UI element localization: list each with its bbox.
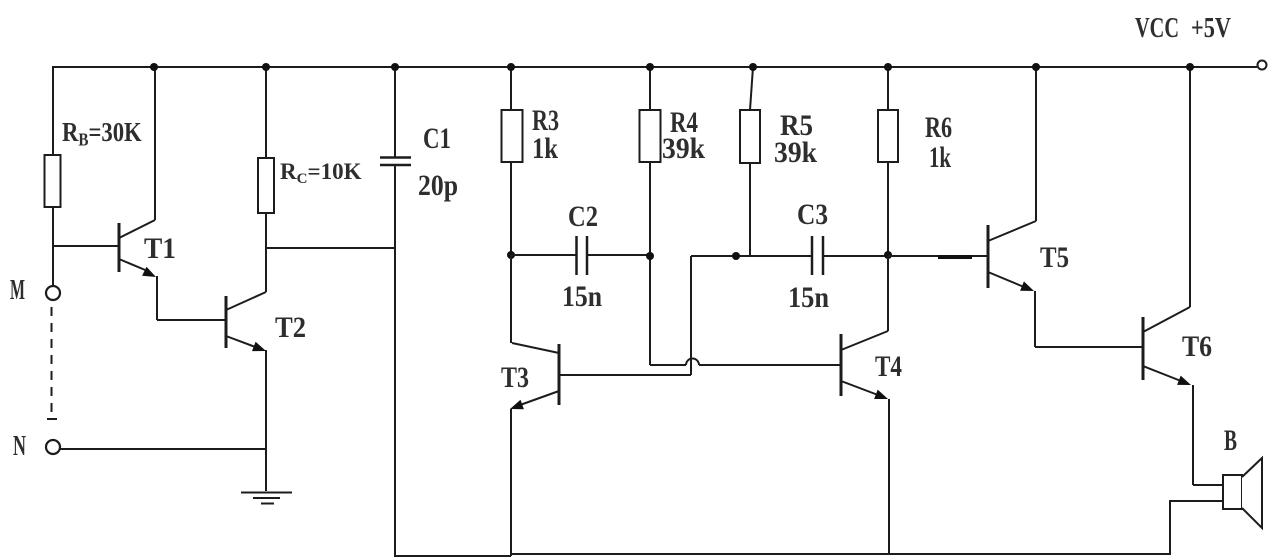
svg-text:39k: 39k [662,132,705,165]
transistor T3 [510,343,559,409]
svg-text:T3: T3 [501,361,529,394]
resistor R6 [878,110,898,162]
svg-text:R6: R6 [925,111,952,144]
wire T1 collector to rail [154,67,156,220]
wire T4 emitter column [888,399,890,555]
svg-text:T4: T4 [875,350,902,383]
wire T4 base left segment [650,364,686,366]
node dot R4 rail [646,63,654,71]
wire T6 collector column [1189,67,1191,307]
wire R5 bottom [749,163,751,256]
wire T6 emitter column [1192,385,1194,485]
wire hop over T3 base riser [686,359,699,366]
transistor T5 [988,221,1036,291]
svg-text:C2: C2 [568,200,598,233]
wire speaker bottom terminal [1170,501,1223,555]
wire RB bottom to M [52,207,54,286]
svg-text:C3: C3 [797,198,828,231]
wire T4 collector column [887,256,889,331]
resistor RB [45,155,61,207]
wire N to ground stem [60,448,266,450]
svg-text:1k: 1k [929,141,951,174]
VCC terminal open circle [1258,61,1267,70]
wire left drop from rail [52,66,54,155]
svg-text:T1: T1 [144,232,176,265]
wire C3 row right [823,255,888,257]
wire T6 emitter to speaker [1193,484,1223,486]
resistor RC [258,158,274,213]
svg-text:15n: 15n [562,280,602,313]
wire T3 emitter column [510,409,512,556]
terminal M circle [46,286,60,300]
wire ground stem [265,449,267,491]
node dot T5 rail [1032,63,1040,71]
svg-text:20p: 20p [418,169,458,202]
wire dash tick [47,418,57,420]
label RB=30K [62,118,142,150]
node dot R6 rail [884,63,892,71]
wire T5 emitter down [1034,291,1036,347]
svg-text:T2: T2 [275,311,306,344]
svg-text:39k: 39k [774,136,817,169]
wire R4 top [649,67,651,110]
wire T2 emitter down [265,350,267,449]
wire R5 slant to rail [750,67,753,110]
wire C3 row left [691,255,812,257]
node dot R3 rail [507,63,515,71]
wire R3 top [510,67,512,110]
wire RC node to C1 column [266,247,395,249]
node dot C1 rail [391,63,399,71]
svg-text:+5V: +5V [1191,12,1231,44]
capacitor C1 [380,158,411,166]
wire R4 bottom to base wire [649,162,651,365]
speaker horn [1242,458,1262,528]
wire dashed M-N [51,307,53,416]
resistor R4 [640,110,661,162]
svg-text:C1: C1 [423,122,451,155]
wire R6 top [887,67,889,110]
wire T2 collector to RC [265,213,267,292]
svg-text:T6: T6 [1182,330,1212,363]
node dot T6 rail [1186,63,1194,71]
svg-text:VCC: VCC [1135,12,1179,44]
terminal N circle [46,440,60,454]
node dot R4-C2 [646,252,654,260]
wire T1 emitter to T2 base [157,319,226,321]
ground [241,493,292,504]
transistor T4 [841,331,888,399]
wire bottom rail left [394,555,511,557]
label VCC +5V [1135,12,1231,44]
node dot R5-C3 [732,252,740,260]
node dot R5 rail [749,63,757,71]
wire C2 row left [511,254,576,256]
node dot RC rail [262,63,270,71]
capacitor C3 [812,236,823,275]
wire T5 base row [888,255,988,257]
svg-text:RC=10K: RC=10K [280,159,362,187]
wire T5 collector column [1035,67,1037,221]
node dot T1 collector [150,63,158,71]
wire thick segment T5 base [938,255,972,259]
svg-text:RB=30K: RB=30K [62,118,142,150]
node dot R3-C2 [507,251,515,259]
resistor R5 [740,110,760,163]
wire C1 top column [394,67,396,157]
speaker B box [1223,475,1242,509]
wire R3 bottom [510,162,512,255]
svg-text:1k: 1k [532,132,558,165]
wire T1 emitter down [156,276,158,320]
wire T3 base [559,374,691,376]
svg-text:N: N [13,430,26,462]
wire R6 bottom [887,162,889,255]
resistor R3 [502,110,523,162]
capacitor C2 [577,236,588,275]
wire T1 base [53,245,119,247]
wire C2 row right [587,254,650,256]
svg-text:B: B [1224,424,1237,457]
wire C1 bottom column [394,166,396,556]
wire bottom rail [511,553,1170,555]
wire T3 collector column [510,255,512,343]
wire VCC top rail [53,66,1257,68]
wire T3 base riser [690,256,692,375]
node dot R6-C3 [884,251,892,259]
transistor T2 [226,292,266,351]
wire T5 emitter to T6 base [1035,346,1143,348]
wire RC top to rail [265,67,267,158]
transistor T1 [119,220,156,277]
svg-text:15n: 15n [788,281,829,314]
svg-text:M: M [10,274,25,306]
wire T4 base right segment [699,364,841,366]
transistor T6 [1143,307,1191,385]
svg-text:T5: T5 [1040,241,1069,274]
